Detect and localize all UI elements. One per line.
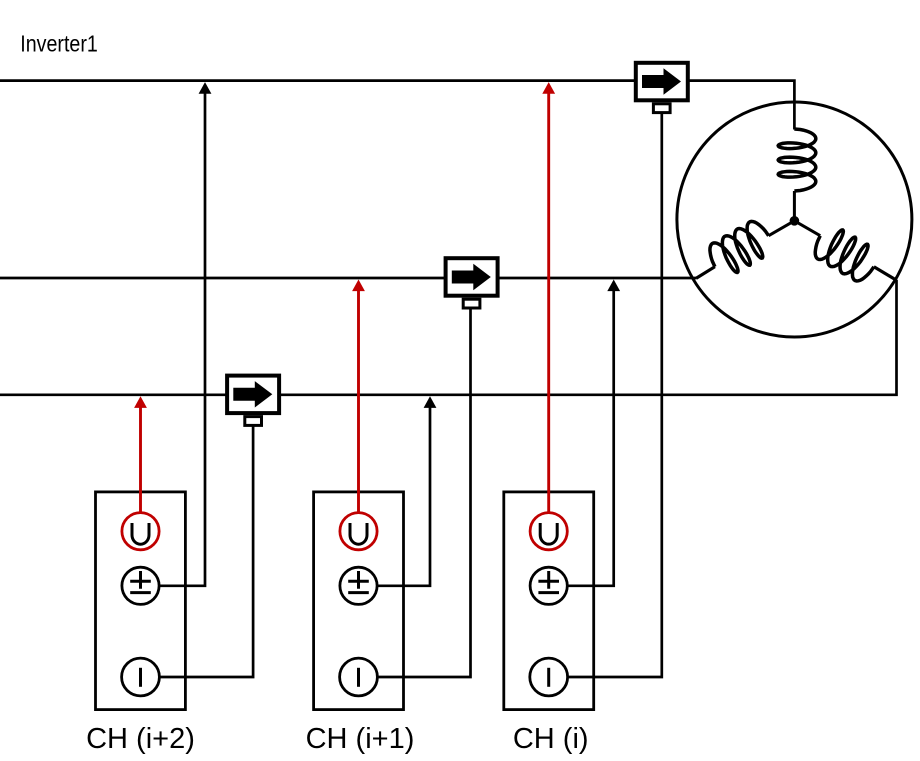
terminal I circle (CH (i+1)) <box>340 658 378 696</box>
current sensor CT1 arrow <box>642 68 681 94</box>
motor winding right (phase 3) <box>784 207 882 285</box>
terminal ± circle (CH (i+1)) <box>340 567 377 604</box>
terminal ± circle (CH (i+2)) <box>122 567 159 604</box>
motor winding top (phase 1) <box>778 129 816 221</box>
current sensor CT1 output tab <box>653 104 670 113</box>
motor star point node <box>790 216 800 226</box>
channel box CH (i+2) <box>96 492 186 710</box>
current sensor CT1 box <box>636 63 688 101</box>
wire ± of CH(i+1) to line 3 <box>377 403 430 586</box>
current sensor CT2 box <box>446 258 498 296</box>
wire U of CH(i) to line 1 (red) <box>547 89 550 513</box>
current sensor CT3 output tab <box>245 417 262 426</box>
terminal U circle (CH (i+2)) <box>122 513 159 550</box>
terminal I circle (CH (i+2)) <box>122 658 160 696</box>
terminal U circle (CH (i)) <box>530 513 567 550</box>
wire phase line 2 (middle bus) <box>0 277 697 280</box>
wire I of CH(i+1) to sensor CT2 <box>377 308 470 677</box>
current sensor CT3 box <box>227 376 279 414</box>
terminal I circle (CH (i)) <box>530 658 568 696</box>
current sensor CT2 arrow <box>452 264 491 290</box>
current sensor CT2 output tab <box>463 299 480 308</box>
current sensor CT3 arrow <box>233 381 272 407</box>
terminal U circle (CH (i+1)) <box>340 513 377 550</box>
wire I of CH(i) to sensor CT1 <box>568 113 662 677</box>
wire lead right winding to riser <box>874 267 897 281</box>
svg-text:CH (i+2): CH (i+2) <box>86 723 195 755</box>
terminal ± circle (CH (i)) <box>530 567 567 604</box>
wire ± of CH(i) to line 2 <box>567 285 613 586</box>
wire U of CH(i+1) to line 2 (red) <box>357 286 360 513</box>
svg-text:Inverter1: Inverter1 <box>20 31 98 57</box>
svg-text:CH (i+1): CH (i+1) <box>306 723 415 755</box>
wire ± of CH(i+2) to line 1 <box>159 88 205 586</box>
channel box CH (i+1) <box>314 492 404 710</box>
wire phase line 1 (top bus) <box>0 81 794 130</box>
svg-text:CH (i): CH (i) <box>513 723 589 755</box>
motor winding left (phase 2) <box>704 202 802 280</box>
motor stator circle <box>677 102 912 337</box>
wire phase line 3 (bottom bus) <box>0 280 897 395</box>
wire U of CH(i+2) to line 3 (red) <box>139 403 142 513</box>
wire I of CH(i+2) to sensor CT3 <box>159 427 253 678</box>
wire lead left winding to line 2 <box>696 267 715 279</box>
channel box CH (i) <box>504 492 594 710</box>
